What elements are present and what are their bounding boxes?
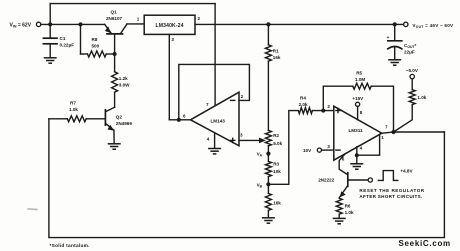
minus input symbol <box>336 149 340 151</box>
svg-text:2N2222: 2N2222 <box>318 177 335 182</box>
svg-text:+4.8V: +4.8V <box>400 168 413 173</box>
wire R1 to R2 <box>267 61 269 130</box>
ground under LM311 <box>350 164 363 169</box>
svg-text:4: 4 <box>360 145 363 150</box>
svg-text:C1: C1 <box>60 36 66 41</box>
svg-text:2: 2 <box>327 104 330 109</box>
wire VB to R4 <box>268 111 298 185</box>
transistor Q1 2N6107 PNP <box>105 9 127 54</box>
svg-text:2.0k: 2.0k <box>299 102 308 107</box>
pulse waveform symbol <box>378 171 397 181</box>
svg-text:R4: R4 <box>300 95 306 100</box>
svg-text:8: 8 <box>360 110 363 115</box>
resistor 1.2k 3.0W <box>112 54 131 92</box>
resistor 16k bottom <box>265 193 281 210</box>
svg-text:SeekiC.com: SeekiC.com <box>399 239 451 248</box>
wire LM340 pin 3 down <box>168 34 170 119</box>
svg-text:LM143: LM143 <box>211 118 226 123</box>
svg-text:−5.0V: −5.0V <box>406 68 419 73</box>
svg-text:5.0k: 5.0k <box>273 141 282 146</box>
svg-text:AFTER SHORT CIRCUITS.: AFTER SHORT CIRCUITS. <box>359 194 422 199</box>
scan artifact dash <box>28 208 38 211</box>
transistor Q2 2N4969 NPN <box>105 107 132 130</box>
wire pin 4 to ground <box>356 147 358 164</box>
comparator U3 LM311 <box>334 106 382 160</box>
+15V terminal and pin 8 <box>352 96 364 120</box>
node reset input terminal <box>368 178 372 182</box>
svg-text:2: 2 <box>198 16 201 21</box>
capacitor COUT 22uF <box>387 24 417 59</box>
ground under divider chain <box>262 218 275 223</box>
svg-text:7: 7 <box>385 125 388 130</box>
svg-text:R3: R3 <box>273 162 279 167</box>
svg-text:Q1: Q1 <box>111 9 118 14</box>
svg-text:3: 3 <box>327 144 330 149</box>
svg-text:R8: R8 <box>92 37 98 42</box>
svg-text:16k: 16k <box>273 200 281 205</box>
svg-text:RESET THE REGULATOR: RESET THE REGULATOR <box>359 188 424 193</box>
op-amp U2 LM143 <box>191 92 240 146</box>
node Q1 base junction <box>113 52 117 56</box>
node R1 branch junction <box>266 22 270 26</box>
svg-text:LM340K-24: LM340K-24 <box>155 23 183 29</box>
svg-text:500: 500 <box>92 43 100 48</box>
wire pin 1 to ground link <box>357 134 380 155</box>
svg-text:10V: 10V <box>303 148 312 153</box>
capacitor C1 0.22uF <box>43 24 74 57</box>
10V terminal to pin 3 <box>303 144 334 153</box>
svg-text:LM311: LM311 <box>349 128 363 133</box>
ground under Q2 <box>108 144 121 149</box>
svg-text:2: 2 <box>241 94 244 99</box>
resistor R7 1.0k <box>49 100 105 121</box>
pin 3 plus input <box>231 138 235 142</box>
plus input symbol <box>336 108 340 112</box>
wire LM311 pin 6 to Q3 collector <box>339 154 347 175</box>
wire R7 down left side to bottom rail <box>49 119 445 238</box>
svg-text:16k: 16k <box>273 55 281 60</box>
svg-text:*Solid tantalum.: *Solid tantalum. <box>50 243 90 249</box>
svg-text:R7: R7 <box>70 100 76 105</box>
ground under LM143 <box>208 149 221 154</box>
wire output to right edge down <box>394 131 445 133</box>
svg-text:3.0W: 3.0W <box>119 83 130 88</box>
svg-text:R6: R6 <box>345 204 351 209</box>
wire top supply rail <box>50 3 215 5</box>
svg-text:1.2k: 1.2k <box>119 76 128 81</box>
node junction at R8 branch <box>79 22 83 26</box>
node COUT branch junction <box>393 22 397 26</box>
node R5 junction at LM311 plus input <box>321 109 325 113</box>
svg-text:22μF: 22μF <box>404 50 415 55</box>
wire Q1 collector to LM340 pin 1 <box>127 23 144 25</box>
resistor R8 500 <box>81 24 115 57</box>
svg-text:Q2: Q2 <box>116 114 123 119</box>
svg-text:3: 3 <box>240 133 243 138</box>
node VIN input terminal <box>36 22 40 26</box>
resistor R3 10k <box>265 161 281 176</box>
node VA <box>267 146 269 162</box>
wire LM143 pin 3 wiper arrow to R2 <box>239 139 260 141</box>
svg-text:1: 1 <box>381 135 384 140</box>
wire LM340 pin 2 to output rail <box>195 23 404 25</box>
resistor 1.0k pull-up <box>394 79 427 132</box>
svg-text:R2: R2 <box>273 133 279 138</box>
svg-text:0.22μF: 0.22μF <box>60 43 75 48</box>
resistor R4 2.0k <box>298 95 334 113</box>
wire LM143 output to node <box>179 119 191 121</box>
node junction at C1 branch <box>48 22 52 26</box>
svg-text:6: 6 <box>342 157 345 162</box>
svg-text:6: 6 <box>183 114 186 119</box>
wire feedback loop output to pin 2 <box>179 64 250 119</box>
wire top rail down to LM143 pin 7 <box>214 4 216 107</box>
resistor R6 1.0k <box>336 198 354 218</box>
svg-text:1.0k: 1.0k <box>345 210 354 215</box>
resistor R1 16k <box>265 24 281 61</box>
wire VIN rail to Q1 emitter <box>41 23 105 25</box>
potentiometer R2 5.0k <box>265 130 282 145</box>
svg-text:1: 1 <box>137 16 140 21</box>
svg-text:3: 3 <box>171 37 174 42</box>
svg-text:1.0M: 1.0M <box>355 77 365 82</box>
svg-text:VIN = 62V: VIN = 62V <box>10 22 32 28</box>
svg-text:R1: R1 <box>273 49 279 54</box>
regulator U1 LM340K-24 <box>144 15 195 34</box>
svg-text:2N4969: 2N4969 <box>116 121 133 126</box>
wire 1.2k to Q2 collector <box>114 92 116 107</box>
svg-text:+: + <box>387 35 390 40</box>
svg-text:R5: R5 <box>356 71 362 76</box>
svg-text:10k: 10k <box>273 169 281 174</box>
ground under COUT <box>388 60 401 65</box>
resistor R5 1.0M feedback <box>323 71 393 132</box>
node VB <box>267 177 269 194</box>
svg-text:+15V: +15V <box>352 96 364 101</box>
node LM143 output junction <box>177 118 181 122</box>
wire VIN up to top rail <box>49 4 51 25</box>
ground under C1 <box>44 58 57 63</box>
svg-text:1.0k: 1.0k <box>417 95 426 100</box>
svg-text:4: 4 <box>207 136 210 141</box>
wire LM143 pin 4 to ground <box>214 133 216 148</box>
wire Q2 emitter to ground <box>113 130 115 143</box>
transistor Q3 2N2222 NPN <box>318 173 368 198</box>
LM311 output node <box>382 132 394 133</box>
svg-text:7: 7 <box>206 102 209 107</box>
node VOUT output terminal <box>404 22 408 26</box>
ground under R6 <box>333 218 346 223</box>
pin 2 minus input <box>231 99 235 101</box>
svg-text:1.0k: 1.0k <box>69 107 78 112</box>
svg-text:2N6107: 2N6107 <box>106 16 123 21</box>
